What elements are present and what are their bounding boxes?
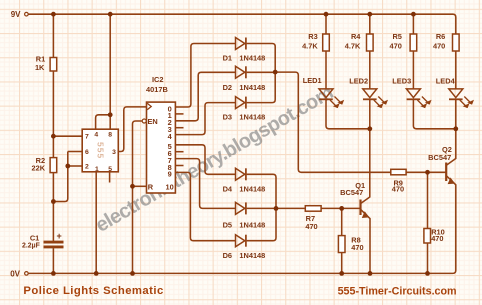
wire: 4017 output 8 stub [175, 165, 183, 167]
wire: 4017 output 4 to D3 [175, 103, 235, 135]
wire: R2 bottom to node B [52, 173, 54, 202]
svg-text:4.7K: 4.7K [345, 42, 361, 51]
svg-text:LED1: LED1 [303, 76, 322, 85]
resistor R2 [50, 158, 57, 173]
4017 clock triangle [147, 103, 151, 109]
svg-text:3: 3 [112, 149, 116, 156]
wire: Q2 emitter down [447, 176, 456, 221]
svg-text:LED3: LED3 [392, 76, 411, 85]
resistor R4 [367, 34, 374, 51]
node: rail/R1 [51, 12, 56, 17]
svg-text:D5: D5 [223, 221, 232, 230]
svg-text:1: 1 [95, 166, 99, 173]
diode D6 [236, 235, 246, 247]
svg-text:1K: 1K [35, 63, 45, 72]
node: LED1/LED2 [367, 126, 372, 131]
wire: EN to left vertical [133, 121, 142, 186]
wire: LED1 cathode to LED2 node [326, 99, 370, 128]
wire: Q2 base node down to R10 [427, 172, 429, 228]
wire: 4017 output 1 stub [175, 113, 183, 115]
resistor R1 [50, 58, 57, 72]
svg-text:1N4148: 1N4148 [239, 251, 265, 260]
wire: R3 top lead [325, 14, 327, 34]
wire: R pin of 4017 [133, 185, 147, 187]
diode D3 [236, 97, 246, 109]
svg-text:IC2: IC2 [152, 75, 164, 84]
wire: R4 bottom to LED2 [369, 51, 371, 89]
capacitor C1 [44, 242, 64, 247]
wire: node B to C1 top [52, 202, 54, 242]
wire: D1 cathode to common node [247, 44, 276, 73]
node: 0V/Q1 emitter [368, 271, 373, 276]
node: 0V/EN-R [130, 271, 135, 276]
555 pin numbers [85, 131, 116, 173]
wire: 4017 output 6 stub [175, 151, 183, 153]
wire: D6 cathode up to common node [247, 208, 276, 240]
diode D2 [236, 66, 246, 78]
LED1 [319, 89, 343, 108]
resistor R5 [410, 34, 417, 51]
wire: 4017 output 3 stub [175, 127, 183, 129]
node: 0V/C1 [51, 271, 56, 276]
wire: pins 2-6 vertical [67, 152, 69, 167]
svg-text:D3: D3 [223, 112, 232, 121]
svg-text:D4: D4 [223, 184, 233, 193]
svg-text:EN: EN [148, 117, 158, 126]
wire: 555 pin2 [68, 165, 82, 167]
transistor Q1 [361, 200, 369, 218]
transistor Q2 [446, 163, 454, 184]
svg-text:9: 9 [168, 170, 172, 179]
wire: R6 bottom to LED4 [455, 51, 457, 89]
node: Q1 base/R8 [339, 206, 344, 211]
4017 EN inversion circle [142, 119, 146, 123]
svg-text:4017B: 4017B [146, 85, 168, 94]
wire: D4-D6 node to R7 [276, 207, 305, 209]
wire: 0V bottom rail [28, 221, 455, 273]
svg-text:R3: R3 [308, 32, 317, 41]
node: rail/R4 [367, 12, 372, 17]
resistor R7 [305, 206, 321, 212]
node: rail/555 pin8 [108, 12, 113, 17]
LED3 [406, 89, 430, 108]
node: 0V/pin1 [94, 271, 99, 276]
svg-text:4: 4 [94, 131, 98, 138]
wire: R8 bottom to 0V rail [341, 253, 343, 274]
wire: C1 bottom to 0V rail [52, 248, 54, 273]
svg-text:555-Timer-Circuits.com: 555-Timer-Circuits.com [338, 285, 457, 297]
svg-text:1N4148: 1N4148 [239, 54, 265, 63]
node: D4-D6 common [274, 206, 279, 211]
wire: 555 pin8 to +9V rail [109, 14, 111, 129]
IC2: 4017B box [147, 102, 176, 193]
wire: R7 to Q1 base [321, 207, 360, 209]
svg-text:22K: 22K [32, 164, 46, 173]
wire: LED4 cathode to Q2 collector node [455, 99, 457, 128]
wire: R3 bottom to LED1 [325, 51, 327, 89]
wire: EN/R node down to 0V rail [132, 186, 134, 273]
svg-text:LED2: LED2 [349, 76, 368, 85]
svg-text:1N4148: 1N4148 [239, 184, 265, 193]
svg-text:R4: R4 [351, 32, 361, 41]
svg-text:LED4: LED4 [436, 76, 456, 85]
node: pins 4/8 [108, 112, 113, 117]
wire: 4017 output 7 to D5 [175, 159, 235, 209]
node: pins 2/6 [65, 164, 70, 169]
svg-text:BC547: BC547 [428, 153, 451, 162]
svg-text:1N4148: 1N4148 [239, 221, 265, 230]
svg-text:D1: D1 [223, 54, 232, 63]
resistor R8 [338, 236, 345, 253]
wire: D1-D3 node across and down to R9 [275, 72, 391, 172]
svg-text:8: 8 [108, 131, 112, 138]
wire: R1 top lead [52, 14, 54, 57]
wire: Q1 emitter to 0V rail [361, 210, 370, 274]
svg-text:470: 470 [431, 234, 443, 243]
diode D1 [236, 38, 246, 50]
wire: +9V top rail [28, 14, 455, 34]
svg-text:D6: D6 [223, 251, 232, 260]
wire: Q1 base node down to R8 [341, 208, 343, 235]
node: EN/R [130, 184, 135, 189]
wire: R9 to Q2 base [406, 171, 446, 173]
wire: D4 cathode to common node [247, 174, 276, 208]
terminal 9V [25, 12, 29, 16]
svg-text:9V: 9V [11, 10, 21, 19]
LED4 [449, 89, 473, 108]
svg-text:R6: R6 [436, 32, 445, 41]
wire: D3 cathode up to common node [247, 73, 276, 103]
svg-text:470: 470 [392, 185, 404, 194]
svg-text:5: 5 [108, 166, 112, 173]
diode D5 [236, 202, 246, 214]
LED2 [363, 89, 387, 108]
wire: 555 pin1 to 0V rail [95, 172, 97, 274]
svg-text:BC547: BC547 [340, 188, 363, 197]
wire: R1 bottom to node A [52, 71, 54, 136]
diode D4 [236, 168, 246, 180]
wire: R4 top lead [369, 14, 371, 34]
svg-text:4.7K: 4.7K [302, 42, 318, 51]
watermark electronictheory.blogspot.com [92, 82, 337, 237]
svg-text:+: + [57, 231, 62, 241]
svg-text:470: 470 [433, 42, 445, 51]
IC U1: 555 timer box [82, 129, 118, 172]
node: D1-D3 common [273, 70, 278, 75]
resistor R3 [323, 34, 330, 51]
resistor R9 [391, 169, 406, 175]
svg-text:470: 470 [305, 222, 317, 231]
wire: LED2 cathode down to Q1 collector [361, 99, 370, 203]
wire: node B bend up to pins 2/6 node [53, 166, 67, 202]
wire: D2 cathode to common node [247, 71, 276, 73]
wire: node A to 555 pin7 [53, 135, 82, 137]
svg-text:470: 470 [390, 42, 402, 51]
4017 pin labels [148, 104, 174, 191]
node: 0V/R10 [425, 271, 430, 276]
wire: 4017 output 2 to D2 [175, 72, 235, 121]
svg-text:2: 2 [85, 164, 89, 171]
node: 0V/R8 [339, 271, 344, 276]
wire: node A to R2 top [52, 136, 54, 157]
wire: LED3 cathode to LED4 node [413, 99, 455, 128]
svg-text:1N4148: 1N4148 [239, 112, 265, 121]
wire: R5 bottom to LED3 [412, 51, 414, 89]
svg-text:6: 6 [85, 149, 89, 156]
wire: 4017 output 9 to D6 [175, 172, 235, 240]
terminal 0V [25, 272, 29, 276]
node: R9/Q2 base/R10 [425, 170, 430, 175]
wire: 555 pin3 to 4017 clock [118, 107, 146, 152]
svg-text:470: 470 [351, 243, 363, 252]
wire: 555 pin6 [68, 151, 82, 153]
resistor R10 [424, 229, 431, 244]
wire: Q2 collector [447, 129, 456, 165]
wire: 555 pin5 stub [109, 172, 111, 183]
svg-text:10: 10 [165, 182, 173, 191]
wire: 555 pin4 up and over to pin8 node [96, 115, 111, 129]
wire: 4017 output 0 to D1 [175, 44, 235, 108]
svg-text:D2: D2 [223, 83, 232, 92]
svg-text:555: 555 [95, 142, 105, 159]
svg-text:2.2µF: 2.2µF [22, 242, 40, 249]
node: R1/R2/pin7 [51, 134, 56, 139]
node: rail/R5 [411, 12, 416, 17]
wire: R5 top lead [412, 14, 414, 34]
svg-text:Police Lights Schematic: Police Lights Schematic [23, 285, 163, 297]
wire: D5 cathode to common node [247, 207, 276, 209]
node: rail/R3 [324, 12, 329, 17]
resistor R6 [453, 34, 460, 51]
node: LED3/LED4 [453, 126, 458, 131]
svg-text:R: R [148, 182, 154, 191]
svg-text:0V: 0V [10, 269, 20, 278]
node: R2/C1 [51, 199, 56, 204]
svg-text:1N4148: 1N4148 [239, 83, 265, 92]
svg-text:7: 7 [85, 134, 89, 141]
svg-text:R5: R5 [392, 32, 401, 41]
wire: R10 bottom to 0V rail [427, 243, 429, 273]
wire: 4017 output 5 to D4 [175, 145, 235, 175]
